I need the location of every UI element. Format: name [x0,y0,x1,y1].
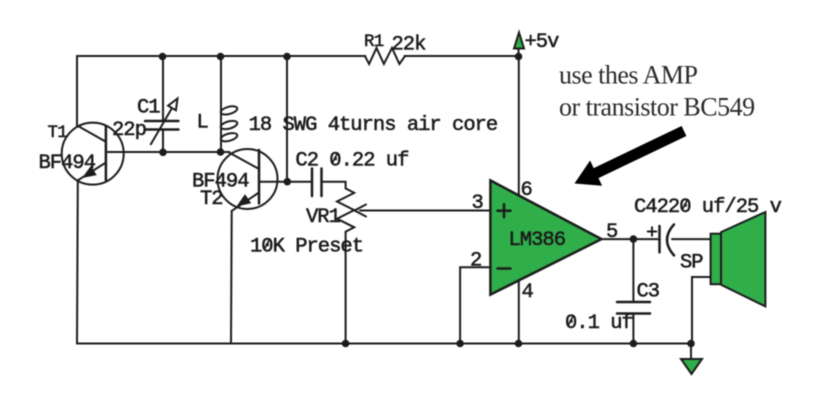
svg-text:C1: C1 [137,97,160,120]
svg-text:T1: T1 [48,123,68,143]
speaker SP [711,212,766,306]
svg-text:+5v: +5v [525,31,560,54]
ground [681,359,702,374]
wire VR1 bottom [345,232,347,344]
node junction x287 top [283,53,291,61]
node junction pin4 rail [515,340,523,348]
wire VR1 wiper to pin 3 [360,210,490,212]
transistor T1 [62,123,124,185]
op-amp U1 LM386 [490,180,601,294]
node junction speaker rail [687,340,695,348]
wire ground stub [690,344,692,360]
op-amp minus input mark [498,267,511,270]
node junction top rail at +5v [515,53,523,61]
capacitor C1 (variable) [145,99,178,145]
svg-text:LM386: LM386 [509,229,566,252]
wire top horizontal left of R1 [77,55,365,57]
wire C3 bottom [632,314,634,344]
svg-text:SP: SP [680,252,703,275]
capacitor C2 [312,169,322,197]
svg-text:C3: C3 [637,281,660,304]
svg-text:6: 6 [521,179,532,202]
wire C1 branch bottom [162,130,164,153]
svg-text:0.1 uf: 0.1 uf [565,312,633,335]
op-amp plus input mark [498,204,511,217]
capacitor C3 [617,302,650,314]
wire pin 2 [460,267,490,343]
svg-text:C2 0.22 uf: C2 0.22 uf [295,150,408,173]
wire T2 base to C2 [259,181,312,183]
capacitor C4 polarized [648,224,674,255]
wire L branch bottom [220,141,222,152]
svg-text:T2: T2 [200,188,223,211]
node junction VR1 bottom rail [342,340,350,348]
potentiometer VR1 [337,188,366,231]
svg-text:2: 2 [470,250,481,273]
svg-text:VR1: VR1 [306,206,341,229]
svg-text:22p: 22p [112,119,146,142]
wire output cap branch vertical [632,239,634,302]
wire left vertical upper [76,56,78,126]
wire speaker to ground rail [692,277,711,344]
wire pin 4 vertical [518,280,520,343]
node junction C1 bottom [159,149,167,157]
slashed zero marks [265,153,688,325]
wire bottom horizontal [77,343,691,345]
svg-text:22k: 22k [392,34,427,57]
resistor R1 [365,48,404,64]
wire C1 branch top [162,56,164,121]
node junction pin2 rail [456,340,464,348]
power +5v symbol [514,33,524,57]
node junction L top [217,53,225,61]
node junction C3 rail [630,340,638,348]
svg-text:BF494: BF494 [39,152,96,175]
wire C2 to VR1 [322,182,346,189]
node junction x287 bottom [284,178,292,186]
svg-text:use thes AMP: use thes AMP [559,60,698,89]
svg-text:R1: R1 [364,32,384,52]
wire T2 emitter down [230,211,233,344]
transistor T2 [218,149,278,211]
inductor L coil [220,105,238,143]
svg-text:4: 4 [522,281,534,304]
node junction output [630,235,638,243]
wire L branch top [220,56,222,107]
node junction L bottom [217,148,225,156]
svg-text:3: 3 [472,192,483,215]
wire C4 to speaker [672,238,711,240]
wire base rail y152 [106,151,230,153]
wire supply branch x287 [286,56,288,182]
svg-text:or transistor BC549: or transistor BC549 [559,93,755,122]
svg-text:18 SWG 4turns air core: 18 SWG 4turns air core [249,114,498,137]
wire pin 6 vertical [518,57,520,196]
annotation arrow [575,126,687,186]
svg-text:L: L [197,112,209,135]
wire pin 5 output [602,238,660,240]
svg-text:5: 5 [606,221,617,244]
wire left vertical lower [76,180,79,343]
wire top horizontal right of R1 [404,55,518,57]
node junction C1 top [159,53,167,61]
